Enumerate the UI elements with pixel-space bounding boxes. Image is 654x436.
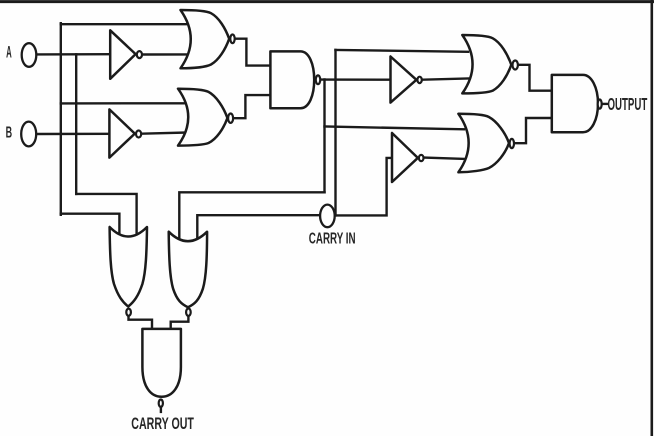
wire NOR3 top input at y~49-51	[336, 50, 469, 52]
wire NOR4 output elbow to NAND2 bottom input	[515, 118, 555, 143]
frame right border	[650, 1, 653, 436]
wire inverter2 output to NOR2 lower input	[142, 132, 191, 133]
input terminal A circle	[22, 43, 37, 67]
wire NOR2 output elbow to NAND1 bottom input	[234, 95, 273, 118]
NOR6 gate (bottom middle, points down)	[169, 232, 207, 308]
wire B terminal to inverter 2	[36, 133, 112, 136]
wire x=61 bus to bottom NOR5 left input	[61, 214, 120, 240]
inverter 2 (B path)	[109, 109, 134, 157]
frame top border	[0, 0, 653, 3]
NOR1 gate (A section)	[181, 10, 230, 68]
wire NOR6 output elbow into AND gate right input	[171, 315, 189, 331]
svg-text:CARRY IN: CARRY IN	[309, 230, 356, 247]
wire NAND1 output to inverter 3	[321, 78, 393, 80]
wire inverter4 output to NOR4 lower input	[425, 158, 464, 159]
svg-text:CARRY OUT: CARRY OUT	[131, 414, 194, 433]
wire x=76 bus to bottom NOR5 right input	[76, 194, 136, 240]
wire top input of NOR1 at y=24.2	[61, 23, 193, 25]
wire carry-out stub below AND bubble	[160, 406, 162, 412]
svg-text:B: B	[6, 125, 13, 142]
wire vertical bus from node at x=61 (y24 to y213.7)	[60, 23, 62, 215]
wire A terminal to inverter 1	[36, 53, 112, 56]
AND gate (carry out, points down)	[142, 329, 181, 397]
wire x=324.5 bus left to bottom NOR6	[179, 192, 324, 242]
wire NAND2 output stub to OUTPUT	[603, 103, 608, 105]
NOR5 gate (bottom left, points down)	[110, 227, 147, 307]
NAND1 gate (first XNOR stage)	[270, 51, 314, 108]
NAND2 gate (output stage)	[552, 75, 598, 132]
NOR2 gate (B section)	[178, 89, 227, 146]
wire NOR5 output elbow into AND gate left input	[129, 315, 153, 331]
wire vertical drop from NAND1 output at x=324.5	[323, 80, 325, 193]
NOR4 gate (bottom right)	[458, 114, 509, 172]
inverter 1 (A path)	[110, 30, 135, 79]
wire carry-in right run to inverter4 riser	[335, 158, 394, 216]
svg-text:A: A	[6, 44, 12, 62]
wire carry-in left run to bottom NOR6 right input	[197, 215, 320, 244]
wire NOR4 top input from x=324.5 bus	[325, 127, 465, 130]
wire vertical bus from A line at x=76.2 down to y=193.9	[75, 54, 77, 194]
input terminal B circle	[21, 122, 36, 147]
svg-text:OUTPUT: OUTPUT	[608, 94, 648, 114]
input terminal CARRY IN circle	[320, 205, 335, 228]
wire inverter3 output to NOR3 lower input	[423, 79, 468, 80]
wire carry-in vertical bus x=335.6 up to NOR3 feed	[334, 50, 336, 216]
inverter 3 (sum path)	[391, 57, 417, 103]
inverter 4 (carry-in path)	[392, 133, 418, 182]
wire NOR2 top input at y=103.4	[61, 102, 193, 104]
wire NOR3 output elbow to NAND2 top input	[519, 65, 555, 91]
wire NOR1 output elbow to NAND1 top input	[236, 39, 273, 66]
wire inverter1 output to NOR1 lower input	[143, 53, 193, 55]
NOR3 gate (top right)	[462, 35, 511, 93]
